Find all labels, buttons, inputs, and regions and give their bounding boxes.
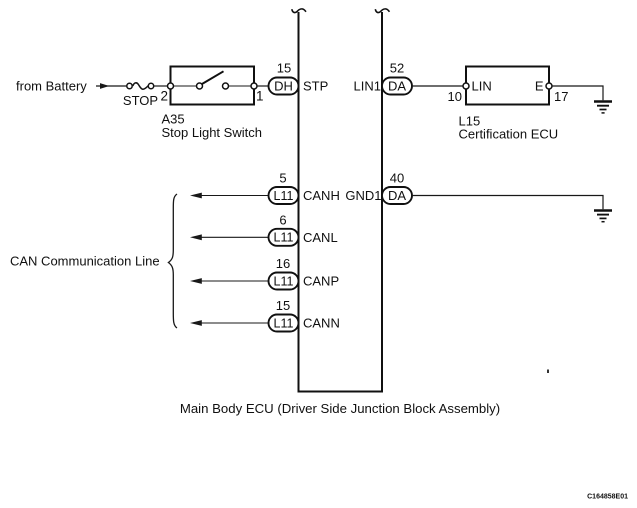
connector DH xyxy=(269,78,299,95)
svg-text:Certification ECU: Certification ECU xyxy=(459,127,559,142)
svg-text:E: E xyxy=(535,78,544,93)
terminal 17 xyxy=(546,83,552,89)
break squiggle left line xyxy=(292,9,306,13)
wire CANP arrow xyxy=(190,278,269,284)
svg-text:GND1: GND1 xyxy=(345,188,381,203)
svg-text:L11: L11 xyxy=(274,231,294,245)
svg-text:1: 1 xyxy=(256,88,264,103)
wire DA to L15 xyxy=(412,85,463,87)
svg-text:Stop Light Switch: Stop Light Switch xyxy=(162,125,262,140)
svg-text:40: 40 xyxy=(390,171,404,186)
wire inside switch right xyxy=(229,85,252,87)
svg-text:CANH: CANH xyxy=(303,188,340,203)
svg-text:C164858E01: C164858E01 xyxy=(587,494,628,501)
brace CAN group xyxy=(168,194,177,328)
svg-text:CANN: CANN xyxy=(303,316,340,331)
svg-text:Main Body ECU (Driver Side Jun: Main Body ECU (Driver Side Junction Bloc… xyxy=(180,401,500,416)
svg-text:15: 15 xyxy=(276,298,290,313)
svg-text:L11: L11 xyxy=(274,274,294,288)
switch contact left xyxy=(197,83,203,89)
svg-text:LIN1: LIN1 xyxy=(354,78,381,93)
svg-text:LIN: LIN xyxy=(472,78,492,93)
wire fuse to switch xyxy=(154,85,168,87)
svg-text:6: 6 xyxy=(279,212,286,227)
wire CANN arrow xyxy=(190,320,269,326)
ground (certification ECU) xyxy=(594,102,612,113)
fuse STOP xyxy=(127,83,154,89)
svg-text:17: 17 xyxy=(554,89,568,104)
ground (GND1) xyxy=(594,211,612,222)
svg-text:DA: DA xyxy=(388,188,406,203)
svg-text:L11: L11 xyxy=(274,189,294,203)
stray mark xyxy=(547,370,549,374)
break squiggle right line xyxy=(375,9,389,13)
wire E terminal to ground xyxy=(552,86,603,100)
svg-text:2: 2 xyxy=(160,88,168,103)
connector L11 pin 5 xyxy=(269,187,299,204)
svg-text:L11: L11 xyxy=(274,316,294,330)
svg-text:16: 16 xyxy=(276,256,290,271)
svg-text:STOP: STOP xyxy=(123,93,158,108)
svg-text:CANP: CANP xyxy=(303,274,339,289)
connector DA pin 52 xyxy=(382,78,412,95)
Main Body ECU block outline xyxy=(299,12,383,392)
wire CANH arrow xyxy=(190,193,269,199)
wire inside switch left xyxy=(174,85,197,87)
wire CANL arrow xyxy=(190,234,269,240)
svg-text:CAN Communication Line: CAN Communication Line xyxy=(10,254,160,269)
connector L11 pin 16 xyxy=(269,273,299,290)
connector L11 pin 6 xyxy=(269,229,299,246)
switch blade xyxy=(202,71,224,84)
svg-text:DH: DH xyxy=(274,78,293,93)
svg-text:DA: DA xyxy=(388,78,406,93)
connector DA pin 40 xyxy=(382,187,412,204)
svg-text:52: 52 xyxy=(390,61,404,76)
switch A35 box xyxy=(171,67,255,105)
svg-text:10: 10 xyxy=(448,89,462,104)
svg-text:5: 5 xyxy=(279,171,286,186)
switch terminal 2 xyxy=(168,83,174,89)
svg-text:STP: STP xyxy=(303,78,328,93)
terminal 10 xyxy=(463,83,469,89)
connector L11 pin 15 xyxy=(269,315,299,332)
switch contact right xyxy=(223,83,229,89)
svg-text:15: 15 xyxy=(277,61,291,76)
svg-text:CANL: CANL xyxy=(303,230,338,245)
wire switch to connector DH xyxy=(257,85,269,87)
wire from battery arrow xyxy=(96,83,128,89)
certification ECU L15 box xyxy=(466,67,549,105)
switch terminal 1 xyxy=(251,83,257,89)
svg-text:from Battery: from Battery xyxy=(16,79,87,94)
wire GND1 to ground xyxy=(412,196,603,210)
